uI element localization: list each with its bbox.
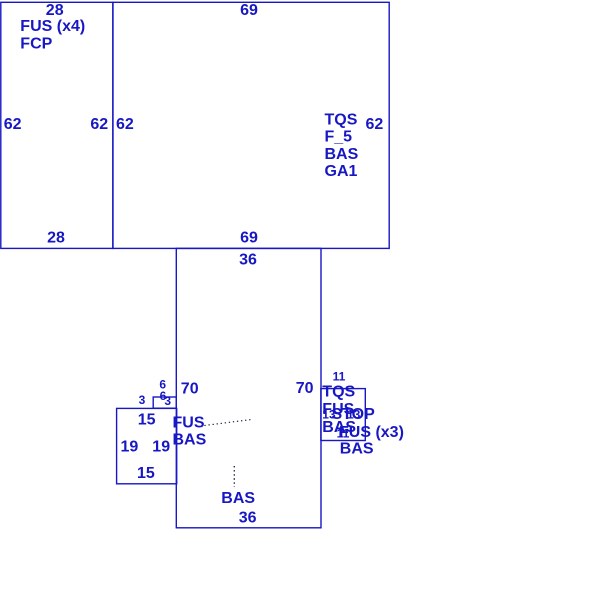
svg-text:FUS (x4): FUS (x4) <box>20 18 85 35</box>
svg-text:BAS: BAS <box>173 432 207 449</box>
svg-text:69: 69 <box>240 229 258 246</box>
box R3 (middle, 36x70) <box>176 248 321 527</box>
svg-text:28: 28 <box>47 230 65 247</box>
svg-text:70: 70 <box>181 380 199 397</box>
svg-text:62: 62 <box>366 116 384 133</box>
svg-text:28: 28 <box>46 2 64 19</box>
svg-text:36: 36 <box>239 510 257 527</box>
svg-text:70: 70 <box>296 380 314 397</box>
svg-text:62: 62 <box>4 116 22 133</box>
svg-text:F_5: F_5 <box>325 129 353 146</box>
svg-text:BAS: BAS <box>221 490 255 507</box>
svg-text:15: 15 <box>137 465 155 482</box>
svg-text:3: 3 <box>164 394 171 408</box>
svg-text:TQS: TQS <box>325 111 358 128</box>
svg-text:19: 19 <box>121 438 139 455</box>
box R1 (top-left, 28x62) <box>1 2 113 248</box>
svg-text:69: 69 <box>240 2 258 19</box>
svg-text:11: 11 <box>333 369 346 383</box>
svg-text:BAS: BAS <box>325 146 359 163</box>
leader dotted vertical in R3 <box>233 466 235 487</box>
svg-text:62: 62 <box>90 116 108 133</box>
svg-text:FUS (x3): FUS (x3) <box>339 424 404 441</box>
svg-text:GA1: GA1 <box>325 163 358 180</box>
leader dotted diagonal in R3 <box>204 420 251 426</box>
svg-text:TQS: TQS <box>322 384 355 401</box>
svg-text:19: 19 <box>152 438 170 455</box>
svg-text:FCP: FCP <box>20 36 52 53</box>
svg-text:FUS: FUS <box>173 415 205 432</box>
svg-text:36: 36 <box>239 252 257 269</box>
svg-text:BAS: BAS <box>340 441 374 458</box>
box R4 (left small, 15x19) <box>117 408 177 483</box>
svg-text:3: 3 <box>139 393 146 407</box>
svg-text:15: 15 <box>138 411 156 428</box>
box R2 (top-right, 69x62) <box>113 2 389 248</box>
box R5 (tiny, 6x3) <box>153 397 176 408</box>
svg-text:62: 62 <box>116 116 134 133</box>
box R6 (right small, 11x13) <box>321 389 365 441</box>
